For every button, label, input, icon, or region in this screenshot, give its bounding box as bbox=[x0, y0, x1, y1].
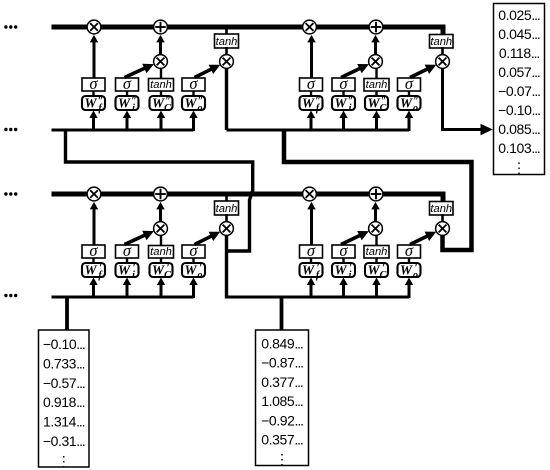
add node L2C1 input bbox=[154, 20, 168, 34]
svg-text:′: ′ bbox=[415, 263, 418, 274]
tanh box L2C2 candidate gate bbox=[364, 79, 389, 92]
wire arrow L1C2 output gate to output multiply bbox=[410, 232, 436, 245]
wire arrow L2C2 forget gate to multiply bbox=[307, 35, 315, 78]
svg-text:″: ″ bbox=[131, 96, 137, 107]
weight box L1C1 WC&#8242; bbox=[150, 263, 173, 282]
weight box L2C1 Wo&#8242;&#8242; bbox=[182, 96, 205, 115]
wire arrow L2C2 input-gate input bbox=[339, 111, 347, 132]
wire L2C2 Wo to sigma bbox=[408, 91, 410, 96]
wire arrow L1C1 input gate to inner multiply bbox=[125, 231, 154, 245]
svg-text:W: W bbox=[367, 263, 380, 278]
wire bottom cell1 hidden to top cell1 input bbox=[66, 129, 253, 252]
sigma box L1C1 forget gate bbox=[82, 241, 105, 260]
svg-text:0.118...: 0.118... bbox=[499, 45, 540, 61]
weight box L1C2 Wi&#8242; bbox=[332, 263, 355, 282]
svg-text:1.085...: 1.085... bbox=[261, 393, 303, 409]
wire arrow L1C1 input-gate input bbox=[123, 278, 131, 299]
wire L1C1 candidate tanh to inner multiply bbox=[160, 234, 162, 245]
multiply node L2C1 input x candidate bbox=[154, 55, 168, 69]
wire L2C1 cell state tap to tanh bbox=[225, 29, 228, 35]
wire arrow L2C2 candidate-gate input bbox=[372, 111, 380, 132]
wire bottom cell2 hidden to top cell2 input bbox=[284, 129, 472, 251]
svg-text:″: ″ bbox=[381, 96, 387, 107]
layer 1 cell-state line c(t) bbox=[52, 194, 444, 203]
svg-text:⋮: ⋮ bbox=[57, 453, 71, 469]
multiply node L1C2 hidden output bbox=[436, 222, 450, 236]
svg-text:W: W bbox=[334, 263, 347, 278]
svg-text:W: W bbox=[84, 263, 97, 278]
tanh box L1C2 cell state tanh bbox=[430, 202, 454, 216]
multiply node L2C1 forget gate bbox=[87, 20, 101, 34]
wire arrow L2C1 output-gate input bbox=[189, 111, 197, 132]
weight box L1C2 Wo&#8242; bbox=[398, 263, 421, 282]
svg-text:″: ″ bbox=[413, 96, 419, 107]
wire arrow L1C1 output gate to output multiply bbox=[195, 232, 221, 245]
wire L1C2 tanh to output multiply bbox=[441, 214, 444, 223]
svg-text:−0.57...: −0.57... bbox=[43, 375, 85, 391]
sigma box L2C2 input gate bbox=[332, 74, 355, 93]
wire arrow L2C1 input gate to inner multiply bbox=[125, 64, 154, 78]
wire L2C2 tanh to output multiply bbox=[441, 47, 444, 56]
svg-text:W: W bbox=[84, 96, 97, 111]
wire arrow L2C2 inner multiply to add bbox=[371, 35, 379, 55]
wire L2C2 Wf to sigma bbox=[310, 91, 312, 96]
input vector box x(t) bbox=[256, 330, 309, 467]
svg-text:tanh: tanh bbox=[430, 203, 452, 215]
wire L1C1 WC to tanh bbox=[160, 258, 162, 263]
weight box L2C1 WC&#8242;&#8242; bbox=[150, 96, 173, 115]
wire bottom layer cell1 gate input line bbox=[52, 296, 194, 299]
weight box L2C1 Wf&#8242;&#8242; bbox=[82, 96, 105, 115]
svg-text:W: W bbox=[334, 96, 347, 111]
wire arrow L1C2 output-gate input bbox=[405, 278, 413, 299]
wire arrow L1C2 forget gate to multiply bbox=[307, 202, 315, 245]
svg-text:tanh: tanh bbox=[366, 246, 388, 258]
wire L1C1 Wi to sigma bbox=[126, 258, 128, 263]
wire top layer cell1 hidden output down bbox=[225, 66, 228, 130]
sigma box L2C2 output gate bbox=[398, 74, 421, 93]
svg-text:″: ″ bbox=[165, 96, 171, 107]
tanh box L2C2 cell state tanh bbox=[430, 35, 454, 49]
svg-text:′: ′ bbox=[199, 263, 202, 274]
multiply node L1C2 input x candidate bbox=[369, 222, 383, 236]
tanh box L2C1 candidate gate bbox=[149, 79, 174, 92]
wire input vector x1 to bottom cell1 bbox=[65, 297, 69, 331]
wire arrow L1C2 input gate to inner multiply bbox=[341, 231, 369, 245]
svg-text:W: W bbox=[184, 263, 197, 278]
sigma box L2C1 input gate bbox=[116, 74, 139, 93]
svg-text:W: W bbox=[184, 96, 197, 111]
svg-text:″: ″ bbox=[348, 96, 354, 107]
svg-text:1.314...: 1.314... bbox=[43, 414, 85, 430]
wire input vector x2 to bottom cell2 bbox=[280, 297, 284, 331]
wire L2C1 Wf to sigma bbox=[92, 91, 94, 96]
tanh box L1C1 candidate gate bbox=[149, 246, 174, 259]
multiply node L2C2 forget gate bbox=[303, 20, 317, 34]
ellipsis top hidden-line continuation bbox=[4, 128, 17, 131]
multiply node L2C2 hidden output bbox=[436, 55, 450, 69]
weight box L2C1 Wi&#8242;&#8242; bbox=[116, 96, 139, 115]
svg-text:−0.10...: −0.10... bbox=[43, 336, 85, 352]
wire L1C1 Wf to sigma bbox=[92, 258, 94, 263]
multiply node L2C1 hidden output bbox=[220, 55, 234, 69]
weight box L1C1 Wi&#8242; bbox=[116, 263, 139, 282]
svg-text:−0.07...: −0.07... bbox=[498, 83, 540, 99]
weight box L2C2 Wi&#8242;&#8242; bbox=[332, 96, 355, 115]
wire L2C1 WC to tanh bbox=[160, 91, 162, 96]
multiply node L1C1 forget gate bbox=[87, 187, 101, 201]
svg-text:″: ″ bbox=[198, 96, 204, 107]
wire bottom layer cell1 hidden output down bbox=[225, 233, 228, 299]
tanh box L1C1 cell state tanh bbox=[215, 201, 239, 215]
svg-text:⋮: ⋮ bbox=[512, 159, 526, 175]
wire L2C2 Wi to sigma bbox=[342, 91, 344, 96]
wire arrow L1C1 forget gate to multiply bbox=[90, 202, 98, 245]
wire arrow L2C2 output gate to output multiply bbox=[410, 65, 436, 78]
wire arrow L1C2 input-gate input bbox=[339, 278, 347, 299]
svg-text:′: ′ bbox=[133, 263, 136, 274]
ellipsis bottom cell-state continuation bbox=[4, 192, 17, 195]
add node L1C1 input bbox=[154, 187, 168, 201]
sigma box L1C1 input gate bbox=[116, 241, 139, 260]
svg-text:′: ′ bbox=[317, 263, 320, 274]
wire L1C2 Wf to sigma bbox=[310, 258, 312, 263]
wire arrow L2C1 candidate-gate input bbox=[157, 111, 165, 132]
wire L1C2 Wi to sigma bbox=[342, 258, 344, 263]
wire arrow L2C1 input-gate input bbox=[123, 111, 131, 132]
ellipsis bottom hidden-line continuation bbox=[4, 294, 17, 297]
weight box L2C2 WC&#8242;&#8242; bbox=[365, 96, 388, 115]
svg-text:0.057...: 0.057... bbox=[498, 64, 540, 80]
wire L2C2 candidate tanh to inner multiply bbox=[375, 67, 377, 78]
svg-text:tanh: tanh bbox=[150, 246, 172, 258]
output vector box h(t) bbox=[494, 4, 545, 176]
wire arrow L2C1 output gate to output multiply bbox=[195, 65, 221, 78]
multiply node L1C1 hidden output bbox=[220, 222, 234, 236]
svg-text:tanh: tanh bbox=[216, 203, 238, 215]
input vector box x(t-1) bbox=[39, 330, 90, 469]
wire arrow L1C1 forget-gate input bbox=[89, 278, 97, 299]
weight box L1C2 Wf&#8242; bbox=[300, 263, 323, 282]
add node L2C2 input bbox=[369, 20, 383, 34]
wire arrow L1C1 candidate-gate input bbox=[157, 278, 165, 299]
wire arrow L1C1 inner multiply to add bbox=[156, 202, 164, 222]
weight box L1C1 Wo&#8242; bbox=[182, 263, 205, 282]
svg-text:−0.10...: −0.10... bbox=[498, 102, 540, 118]
svg-text:W: W bbox=[367, 96, 380, 111]
svg-text:tanh: tanh bbox=[216, 36, 238, 48]
wire arrow L2C1 inner multiply to add bbox=[156, 35, 164, 55]
svg-text:0.849...: 0.849... bbox=[261, 336, 303, 352]
wire L2C1 tanh to output multiply bbox=[225, 47, 228, 56]
wire L1C2 candidate tanh to inner multiply bbox=[375, 234, 377, 245]
svg-text:′: ′ bbox=[167, 263, 170, 274]
wire arrow L1C1 output-gate input bbox=[189, 278, 197, 299]
svg-text:−0.87...: −0.87... bbox=[261, 355, 303, 371]
sigma box L2C1 output gate bbox=[182, 74, 205, 93]
svg-text:0.733...: 0.733... bbox=[43, 355, 85, 371]
wire arrow L1C2 forget-gate input bbox=[307, 278, 315, 299]
sigma box L1C2 forget gate bbox=[300, 241, 323, 260]
wire arrow L2C2 output-gate input bbox=[405, 111, 413, 132]
wire L1C2 WC to tanh bbox=[375, 258, 377, 263]
wire L1C1 tanh to output multiply bbox=[225, 214, 228, 223]
svg-text:tanh: tanh bbox=[150, 79, 172, 91]
svg-text:W: W bbox=[400, 96, 413, 111]
svg-text:W: W bbox=[302, 263, 315, 278]
layer 2 cell1 gate input line h/x bbox=[52, 129, 194, 132]
weight box L1C1 Wf&#8242; bbox=[82, 263, 105, 282]
add node L1C2 input bbox=[369, 187, 383, 201]
wire arrow L1C2 inner multiply to add bbox=[371, 202, 379, 222]
multiply node L2C2 input x candidate bbox=[369, 55, 383, 69]
sigma box L1C2 input gate bbox=[332, 241, 355, 260]
multiply node L1C2 forget gate bbox=[303, 187, 317, 201]
svg-text:W: W bbox=[400, 263, 413, 278]
svg-text:′: ′ bbox=[99, 263, 102, 274]
wire arrow top cell2 hidden output to output vector bbox=[443, 66, 493, 135]
svg-text:′: ′ bbox=[349, 263, 352, 274]
sigma box L2C2 forget gate bbox=[300, 74, 323, 93]
svg-text:0.357...: 0.357... bbox=[261, 432, 303, 448]
svg-text:″: ″ bbox=[315, 96, 321, 107]
svg-text:0.918...: 0.918... bbox=[43, 394, 85, 410]
svg-text:W: W bbox=[152, 96, 165, 111]
svg-text:W: W bbox=[302, 96, 315, 111]
layer 2 cell-state line c(t) bbox=[52, 27, 444, 36]
sigma box L2C1 forget gate bbox=[82, 74, 105, 93]
svg-text:0.025...: 0.025... bbox=[498, 7, 540, 23]
wire L2C2 WC to tanh bbox=[375, 91, 377, 96]
svg-text:tanh: tanh bbox=[366, 79, 388, 91]
wire arrow L2C1 forget-gate input bbox=[89, 111, 97, 132]
svg-text:W: W bbox=[152, 263, 165, 278]
wire bottom layer cell2 gate input line bbox=[227, 296, 410, 299]
wire arrow L2C1 forget gate to multiply bbox=[90, 35, 98, 78]
svg-text:⋮: ⋮ bbox=[275, 451, 289, 467]
svg-text:″: ″ bbox=[98, 96, 104, 107]
wire L2C1 Wo to sigma bbox=[192, 91, 194, 96]
weight box L1C2 WC&#8242; bbox=[365, 263, 388, 282]
wire L1C2 Wo to sigma bbox=[408, 258, 410, 263]
svg-text:tanh: tanh bbox=[430, 36, 452, 48]
svg-text:0.045...: 0.045... bbox=[498, 26, 540, 42]
wire top layer cell2 gate input line bbox=[227, 129, 410, 132]
svg-text:W: W bbox=[118, 96, 131, 111]
sigma box L1C2 output gate bbox=[398, 241, 421, 260]
wire arrow L1C2 candidate-gate input bbox=[372, 278, 380, 299]
weight box L2C2 Wo&#8242;&#8242; bbox=[398, 96, 421, 115]
wire arrow L2C2 input gate to inner multiply bbox=[341, 64, 369, 78]
svg-text:0.377...: 0.377... bbox=[261, 374, 303, 390]
svg-text:−0.92...: −0.92... bbox=[261, 412, 303, 428]
weight box L2C2 Wf&#8242;&#8242; bbox=[300, 96, 323, 115]
wire L1C1 cell state tap to tanh bbox=[225, 196, 228, 202]
wire L1C1 Wo to sigma bbox=[192, 258, 194, 263]
sigma box L1C1 output gate bbox=[182, 241, 205, 260]
wire L2C1 Wi to sigma bbox=[126, 91, 128, 96]
ellipsis top cell-state continuation bbox=[4, 25, 17, 28]
wire L2C1 candidate tanh to inner multiply bbox=[160, 67, 162, 78]
wire arrow L2C2 forget-gate input bbox=[307, 111, 315, 132]
svg-text:0.103...: 0.103... bbox=[498, 140, 540, 156]
svg-text:W: W bbox=[118, 263, 131, 278]
svg-text:′: ′ bbox=[382, 263, 385, 274]
layer 1 cell1 gate input line h/x bbox=[52, 296, 194, 299]
tanh box L1C2 candidate gate bbox=[364, 246, 389, 259]
svg-text:−0.31...: −0.31... bbox=[43, 433, 85, 449]
tanh box L2C1 cell state tanh bbox=[215, 34, 239, 48]
svg-text:0.085...: 0.085... bbox=[498, 121, 540, 137]
multiply node L1C1 input x candidate bbox=[154, 222, 168, 236]
